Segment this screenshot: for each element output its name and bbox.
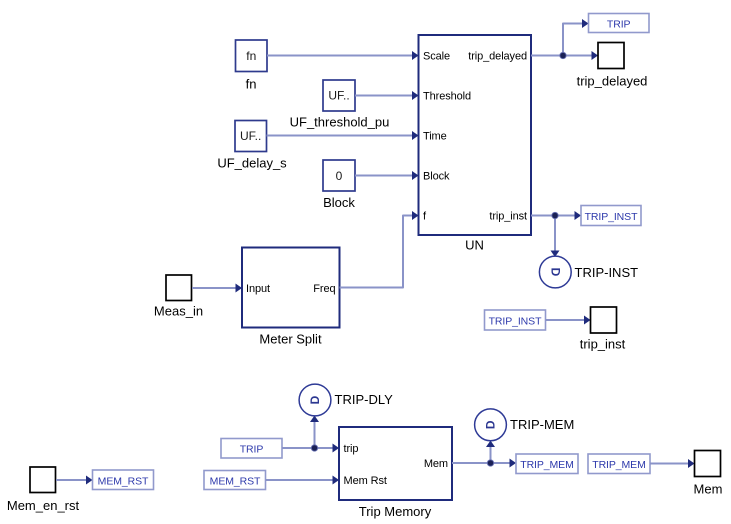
svg-text:Meas_in: Meas_in: [154, 304, 203, 319]
svg-text:Block: Block: [423, 171, 450, 183]
wire from TRIP_INST to trip_inst outport: [546, 316, 591, 325]
constant UF_delay_s: [217, 121, 287, 171]
lamp TRIP-DLY: [299, 384, 393, 416]
svg-text:fn: fn: [246, 49, 256, 63]
wire trip_delayed out: [531, 19, 598, 60]
svg-text:Meter Split: Meter Split: [259, 332, 322, 347]
wire TRIP to trip input: [282, 416, 339, 453]
from MEM_RST: [204, 471, 266, 490]
svg-text:Freq: Freq: [313, 283, 335, 295]
lamp TRIP-MEM: [475, 409, 575, 441]
junction trip wire: [311, 445, 317, 451]
from TRIP_MEM: [588, 454, 650, 474]
svg-text:Input: Input: [246, 283, 270, 295]
svg-text:TRIP_MEM: TRIP_MEM: [592, 459, 645, 471]
junction trip_inst: [552, 212, 558, 218]
svg-text:UF_threshold_pu: UF_threshold_pu: [290, 115, 390, 130]
wire UF_threshold_pu to Threshold: [355, 91, 419, 100]
svg-text:trip_delayed: trip_delayed: [468, 51, 527, 63]
inport Mem_en_rst: [7, 467, 80, 513]
wire Mem_en_rst to MEM_RST: [56, 476, 93, 485]
from TRIP: [221, 439, 282, 459]
svg-text:TRIP-INST: TRIP-INST: [575, 265, 639, 280]
wire Mem out: [452, 441, 516, 468]
outport trip_delayed: [577, 43, 648, 89]
constant Block: [323, 160, 355, 210]
lamp TRIP-INST: [539, 256, 638, 288]
svg-text:Mem: Mem: [424, 458, 448, 470]
junction Mem wire: [487, 460, 493, 466]
svg-text:fn: fn: [246, 77, 257, 92]
svg-text:UF_delay_s: UF_delay_s: [217, 156, 287, 171]
goto TRIP_MEM: [516, 454, 578, 474]
svg-text:UN: UN: [465, 238, 484, 253]
svg-text:UF..: UF..: [328, 89, 349, 103]
constant fn: [236, 40, 268, 92]
svg-text:MEM_RST: MEM_RST: [210, 476, 261, 488]
svg-text:TRIP_INST: TRIP_INST: [585, 211, 638, 223]
wire Block to Block port: [355, 171, 419, 180]
svg-text:TRIP_MEM: TRIP_MEM: [520, 459, 573, 471]
subsystem Trip Memory: [339, 427, 452, 519]
svg-text:TRIP-DLY: TRIP-DLY: [335, 392, 394, 407]
subsystem UN: [419, 35, 532, 253]
from TRIP_INST: [485, 310, 546, 330]
subsystem Meter Split: [242, 248, 340, 347]
svg-text:0: 0: [336, 169, 343, 183]
svg-text:Mem_en_rst: Mem_en_rst: [7, 498, 80, 513]
wire Meas_in to Input: [192, 284, 242, 293]
svg-text:D: D: [548, 268, 562, 277]
svg-text:TRIP: TRIP: [607, 19, 631, 31]
svg-text:trip: trip: [344, 443, 359, 455]
svg-text:trip_inst: trip_inst: [580, 337, 626, 352]
svg-text:trip_inst: trip_inst: [489, 211, 527, 223]
junction trip_delayed: [560, 52, 566, 58]
constant UF_threshold_pu: [290, 80, 390, 130]
svg-text:Block: Block: [323, 195, 355, 210]
svg-text:Mem: Mem: [694, 482, 723, 497]
inport Meas_in: [154, 275, 203, 319]
goto TRIP_INST: [581, 206, 641, 226]
goto MEM_RST: [93, 470, 154, 490]
svg-text:UF..: UF..: [240, 129, 261, 143]
wire MEM_RST to Mem Rst input: [266, 476, 340, 485]
outport Mem: [694, 451, 723, 497]
wire fn to Scale: [267, 51, 419, 60]
svg-text:Trip Memory: Trip Memory: [359, 504, 432, 519]
svg-text:TRIP-MEM: TRIP-MEM: [510, 417, 574, 432]
svg-text:trip_delayed: trip_delayed: [577, 74, 648, 89]
svg-text:Mem Rst: Mem Rst: [344, 475, 387, 487]
svg-text:D: D: [308, 395, 322, 404]
wire from TRIP_MEM to Mem outport: [650, 459, 695, 468]
svg-text:MEM_RST: MEM_RST: [98, 476, 149, 488]
wire UF_delay_s to Time: [267, 131, 419, 140]
svg-text:TRIP: TRIP: [240, 444, 264, 456]
goto TRIP: [589, 14, 650, 33]
wire trip_inst out: [531, 211, 581, 257]
svg-text:TRIP_INST: TRIP_INST: [489, 316, 542, 328]
wire Freq to f: [340, 211, 419, 288]
svg-text:Threshold: Threshold: [423, 91, 471, 103]
outport trip_inst: [580, 307, 626, 352]
svg-text:D: D: [484, 420, 498, 429]
svg-text:Scale: Scale: [423, 51, 450, 63]
svg-text:Time: Time: [423, 131, 447, 143]
